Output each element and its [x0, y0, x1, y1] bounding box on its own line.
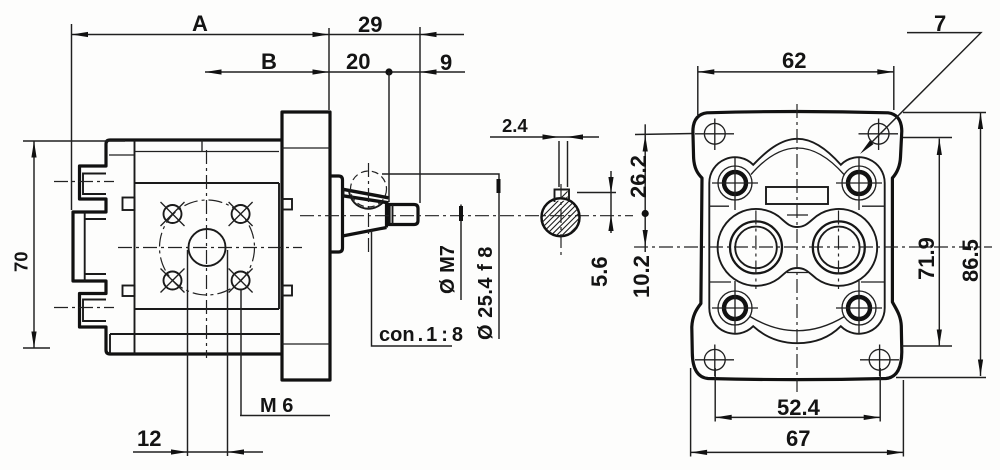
ext 52.4 left [714, 368, 716, 422]
plate vertical centerline [206, 150, 208, 358]
ext 12 right [227, 250, 229, 456]
ext line shoulder [388, 72, 390, 202]
key circle vertical centerline [368, 163, 370, 255]
socket screw BL [712, 281, 758, 334]
rear cover / housing boundary [134, 140, 136, 354]
body shelf left bottom [709, 281, 731, 283]
arrow A left [72, 32, 89, 37]
shaft key top line [343, 189, 389, 198]
arrow 5.6 top [608, 177, 613, 194]
flange outline [692, 112, 902, 380]
ext 2.4 left [558, 141, 560, 187]
body shelf right top [862, 205, 885, 207]
dim line A/29 [72, 34, 465, 36]
top notch [201, 140, 203, 152]
arrow 52.4 right [864, 415, 881, 420]
shaft centerline [300, 215, 633, 217]
mounting flange internal line lower [282, 343, 330, 345]
upper port centerline [54, 181, 114, 183]
svg-text:29: 29 [358, 12, 382, 37]
ext 5.6 [577, 192, 616, 194]
housing lower line [110, 333, 280, 335]
dim 26.2/10.2 line [644, 124, 646, 252]
key left end [343, 188, 345, 197]
svg-text:B: B [261, 49, 277, 74]
arrow 52.4 left [715, 415, 732, 420]
ext 70 bottom [23, 347, 50, 349]
socket screw TL [712, 158, 758, 210]
gear bore right inner [818, 227, 860, 269]
dot 20/9 [385, 68, 392, 75]
M7 tick [459, 206, 463, 221]
svg-text:5.6: 5.6 [587, 256, 612, 287]
arrow 86.5 top [978, 113, 983, 130]
dim 2.4 line [490, 136, 599, 138]
dot 26.2/10.2 [642, 210, 649, 217]
key seat arc [349, 190, 383, 209]
arrow A right [313, 32, 330, 37]
arrow 5.6 bottom [608, 215, 613, 232]
ext 67 right [902, 380, 904, 457]
middle tab inner line [85, 212, 106, 281]
con leader [372, 230, 453, 346]
M7 leader [460, 205, 462, 301]
threaded tip [389, 205, 418, 225]
face plate bottom edge [135, 308, 280, 310]
dia 25.4 leader [382, 174, 499, 339]
svg-text:52.4: 52.4 [777, 395, 821, 420]
dim 71.9 line [938, 139, 940, 347]
socket screw TR [836, 158, 882, 210]
dim 62 line [698, 71, 894, 73]
hatching [530, 169, 590, 295]
body inner contour bottom [750, 317, 845, 331]
arrow 67 left [691, 450, 708, 455]
arrow 62 left [698, 69, 715, 74]
bolt circle [160, 200, 255, 295]
corner hole TL [695, 119, 734, 151]
dim 70 line [33, 141, 35, 348]
dim 67 line [691, 451, 904, 453]
ext 71.9 bottom [902, 345, 952, 347]
arrow 12 left [171, 449, 188, 454]
ext line A left [71, 24, 73, 210]
ext 62 right [893, 66, 895, 110]
arrow B left [205, 69, 222, 74]
top rectangle [766, 187, 828, 204]
arrow 2.4 left [543, 134, 560, 139]
body inner contour top [751, 148, 844, 175]
ext 2.4 right [567, 141, 569, 187]
svg-text:M 6: M 6 [260, 395, 293, 417]
woodruff key circle (dashed) [351, 171, 387, 207]
svg-text:67: 67 [786, 426, 810, 451]
port hole [189, 229, 226, 266]
face plate top edge [135, 182, 280, 184]
dim 12 line [133, 451, 263, 453]
centerline tick bottom [787, 272, 808, 274]
section vertical centerline [560, 184, 562, 256]
svg-text:26.2: 26.2 [626, 155, 651, 198]
M6 leader [240, 290, 330, 416]
svg-text:2.4: 2.4 [502, 115, 528, 136]
svg-text:62: 62 [782, 48, 806, 73]
thread runout line [392, 205, 394, 225]
arrow 2.4 right [567, 134, 584, 139]
svg-text:A: A [192, 11, 208, 36]
svg-text:20: 20 [346, 49, 370, 74]
body shelf right bottom [861, 281, 885, 283]
arrow 7 [858, 140, 873, 155]
arrow 67 right [887, 450, 904, 455]
svg-text:9: 9 [440, 50, 452, 75]
tab upper-left [123, 198, 135, 211]
ext 26.2 top [635, 134, 694, 135]
dim line B/20/9 [205, 71, 465, 73]
face plate screw BL [161, 269, 185, 293]
ext line shaft tip [419, 27, 421, 203]
leader 7 [866, 33, 981, 148]
upper port boss face lines [83, 174, 106, 195]
tab lower-left [123, 286, 135, 297]
ext 67 left [690, 368, 692, 457]
ext 86.5 top [903, 112, 986, 114]
gear bore right outer [813, 221, 865, 273]
tab lower-right [282, 286, 292, 296]
svg-text:12: 12 [137, 426, 161, 451]
arrow 70 bottom [31, 332, 36, 349]
ext 71.9 top [903, 137, 952, 139]
svg-text:71.9: 71.9 [914, 237, 939, 280]
socket screw BR [836, 281, 882, 334]
arrow 10.2 bottom [643, 230, 648, 247]
svg-text:Ø M7: Ø M7 [437, 245, 459, 294]
housing lower step vertical [109, 334, 111, 354]
gear left vertical centerline [755, 211, 757, 290]
gear bore left outer [730, 221, 782, 273]
svg-text:10.2: 10.2 [629, 255, 654, 298]
arrow 70 top [31, 141, 36, 158]
arrow 9 right [420, 69, 437, 74]
arrow 71.9 top [937, 139, 942, 156]
arrow 86.5 bottom [978, 360, 983, 377]
gear peanut contour [718, 209, 878, 286]
dia 25.4 tick [497, 179, 501, 193]
arrow 62 right [877, 69, 894, 74]
svg-text:Ø 25.4 f 8: Ø 25.4 f 8 [475, 246, 497, 340]
plate horizontal centerline [118, 247, 302, 249]
shaft bottom line [343, 228, 387, 237]
gear right vertical centerline [838, 211, 840, 290]
shaft shoulder [385, 203, 388, 228]
gear bore left inner [735, 227, 777, 269]
corner hole TR [859, 119, 899, 151]
lower port centerline [54, 307, 114, 309]
svg-text:86.5: 86.5 [958, 239, 983, 282]
dim 5.6 line [610, 171, 612, 233]
rear cover step line [109, 154, 135, 156]
lower port boss face lines [83, 300, 106, 322]
mounting flange internal line upper [282, 147, 330, 149]
pump rear cover + housing outline [73, 112, 330, 380]
dim 52.4 line [715, 416, 880, 418]
shaft top line [343, 196, 389, 203]
shaft section circle [542, 198, 580, 236]
ext 86.5 bottom [896, 377, 986, 379]
right view vertical centerline [796, 104, 798, 392]
arrow 12 right [228, 449, 245, 454]
face plate screw TR [229, 202, 253, 226]
centerline tick top [787, 214, 808, 216]
body outer contour [709, 139, 884, 343]
face plate screw TL [161, 202, 185, 226]
corner hole BL [695, 345, 734, 377]
pilot boss [330, 176, 343, 252]
ext 12 left [187, 250, 189, 456]
arrow 29 right [420, 32, 437, 37]
ext line flange face [328, 28, 330, 110]
arrow 26.2 top [643, 135, 648, 152]
housing top internal line [135, 151, 280, 153]
right view horizontal centerline [634, 246, 992, 248]
arrow B right [313, 69, 330, 74]
key cross-section [555, 190, 570, 203]
ext 70 top [23, 140, 125, 142]
body shelf left top [709, 205, 729, 207]
ext 52.4 right [879, 368, 881, 422]
svg-text:70: 70 [11, 251, 32, 272]
tab upper-right [282, 199, 292, 210]
face plate screw BR [229, 269, 253, 293]
face plate right edge [278, 183, 280, 309]
dim 86.5 line [980, 113, 982, 377]
arrow 71.9 bottom [937, 330, 942, 347]
corner hole BR [860, 345, 899, 377]
ext 62 left [697, 66, 699, 115]
